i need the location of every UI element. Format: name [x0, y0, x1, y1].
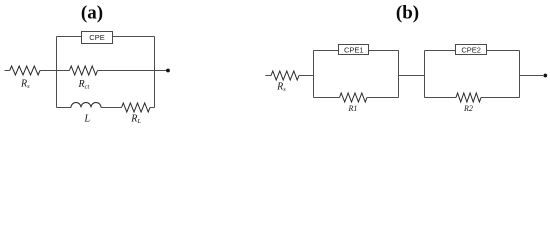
- svg-text:CPE2: CPE2: [461, 46, 481, 55]
- svg-text:(b): (b): [396, 3, 419, 24]
- wire bottom rail left block1 (b): [314, 97, 340, 99]
- svg-text:CPE1: CPE1: [344, 46, 364, 55]
- wire right vertical block2 (b): [519, 51, 521, 98]
- wire left vertical block1 (b): [313, 51, 315, 98]
- wire top rail left block1 (b): [314, 50, 339, 52]
- svg-text:CPE: CPE: [89, 33, 104, 42]
- wire bottom rail right (a): [150, 107, 155, 109]
- wire top rail right block2 (b): [487, 50, 520, 52]
- node terminal dot (b): [543, 74, 547, 78]
- wire to block1 (b): [299, 75, 314, 77]
- capacitor CPE2 box: [456, 45, 487, 55]
- wire right vertical block1 (b): [398, 51, 400, 98]
- wire top rail right block1 (b): [369, 50, 399, 52]
- svg-text:R2: R2: [463, 104, 473, 113]
- wire left terminal (b): [265, 75, 271, 77]
- wire middle rail (a): [40, 70, 69, 72]
- wire bottom rail left (a): [57, 107, 72, 109]
- resistor R2: [456, 93, 481, 102]
- wire right vertical (a): [154, 37, 156, 108]
- capacitor CPE1 box: [339, 45, 369, 55]
- wire bottom rail mid (a): [101, 107, 122, 109]
- wire bottom rail left block2 (b): [425, 97, 457, 99]
- svg-text:Rs: Rs: [276, 81, 286, 93]
- wire left vertical block2 (b): [424, 51, 426, 98]
- svg-text:RL: RL: [130, 113, 141, 125]
- wire between blocks (b): [399, 75, 425, 77]
- inductor L: [71, 103, 101, 108]
- svg-text:(a): (a): [81, 3, 103, 24]
- wire left terminal (a): [5, 70, 10, 72]
- svg-text:Rs: Rs: [20, 79, 30, 91]
- wire bottom rail right block1 (b): [367, 97, 399, 99]
- svg-text:L: L: [84, 113, 91, 124]
- wire top rail left block2 (b): [425, 50, 456, 52]
- wire top rail left (a): [57, 36, 82, 38]
- svg-text:Rct: Rct: [78, 79, 90, 91]
- resistor Rct: [69, 66, 97, 75]
- wire middle rail right (a): [98, 70, 169, 72]
- resistor Rs (b): [271, 71, 299, 80]
- wire output (b): [520, 75, 544, 77]
- resistor R1: [340, 93, 368, 102]
- resistor Rs (a): [10, 66, 40, 75]
- node terminal dot (a): [166, 69, 170, 73]
- wire top rail right (a): [113, 36, 155, 38]
- capacitor CPE box (a): [82, 32, 113, 44]
- svg-text:R1: R1: [348, 104, 358, 113]
- resistor RL: [122, 103, 151, 112]
- wire bottom rail right block2 (b): [481, 97, 520, 99]
- wire left vertical (a): [56, 37, 58, 108]
